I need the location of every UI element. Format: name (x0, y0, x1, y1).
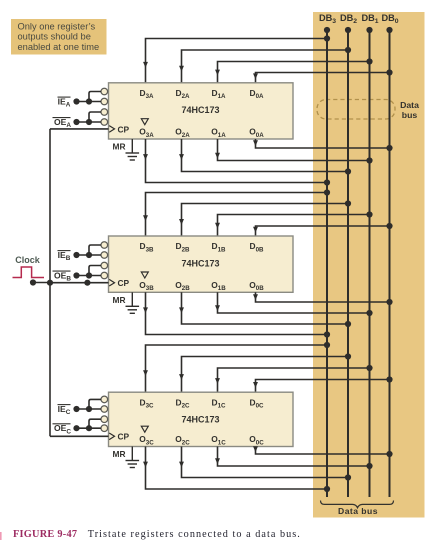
junction IEB (73, 252, 92, 258)
UC pin D3C (140, 397, 155, 409)
junction OEC (73, 425, 92, 431)
net OEA label (53, 117, 72, 129)
wire O1C to bus DB1 (215, 447, 369, 467)
svg-text:MR: MR (113, 142, 126, 152)
UB pin D0B (250, 241, 265, 253)
wire O3A to bus DB3 (143, 139, 327, 183)
wire O3C to bus DB3 (143, 447, 327, 490)
svg-text:OEC: OEC (54, 423, 71, 435)
net IEC label (58, 404, 71, 416)
svg-text:OEA: OEA (54, 117, 71, 129)
wire O3B to bus DB3 (143, 292, 327, 334)
wire bus DB3 to D3B (143, 193, 327, 237)
svg-text:Clock: Clock (15, 255, 41, 265)
UA label 74HC173 (181, 105, 219, 115)
svg-text:IEC: IEC (58, 404, 71, 416)
junction DB2 / O2B (345, 321, 351, 327)
junction OEA (73, 119, 92, 125)
junction DB2 / D2C (345, 353, 351, 359)
dashed data bus outline (317, 100, 395, 120)
wire O0B to bus DB0 (253, 292, 389, 302)
wire O2B to bus DB2 (179, 292, 348, 324)
junction IEC (73, 406, 92, 412)
svg-text:bus: bus (402, 110, 418, 120)
svg-text:CP: CP (118, 278, 130, 288)
junction clock source (30, 279, 36, 285)
wire OEB (77, 266, 102, 276)
wire IEB (77, 245, 102, 255)
UC input-enable bubbles (101, 396, 108, 431)
junction DB0 / D0C (386, 376, 392, 382)
register UC 74HC173 body (109, 392, 294, 446)
UB pin D1B (212, 241, 227, 253)
bus line DB2 (345, 27, 351, 497)
svg-text:IEB: IEB (58, 250, 71, 262)
wire bus DB3 to D3A (143, 39, 327, 83)
UC pin D1C (212, 397, 227, 409)
UA pin O0A (249, 127, 264, 139)
junction DB2 / O2C (345, 474, 351, 480)
wire O2C to bus DB2 (179, 447, 348, 478)
register UA 74HC173 body (109, 83, 294, 139)
junction DB0 / O0C (386, 451, 392, 457)
junction DB1 / D1B (366, 211, 372, 217)
wire bus DB1 to D1A (215, 62, 369, 83)
svg-text:74HC173: 74HC173 (181, 105, 219, 115)
junction DB3 / O3A (324, 179, 330, 185)
wire IEC (77, 399, 102, 409)
junction DB0 / D0B (386, 223, 392, 229)
svg-text:Data bus: Data bus (338, 506, 378, 516)
UB pin O1B (211, 280, 226, 292)
UB pin D3B (140, 241, 155, 253)
junction clock rail / UB (47, 280, 91, 286)
svg-text:OEB: OEB (54, 271, 71, 283)
wire bus DB2 to D2B (179, 204, 348, 237)
wire rail to CP of UA (50, 128, 109, 130)
junction DB1 / O1A (366, 157, 372, 163)
junction DB2 / O2A (345, 168, 351, 174)
svg-text:74HC173: 74HC173 (181, 258, 219, 268)
junction OEB (73, 272, 92, 278)
UB label 74HC173 (181, 258, 219, 268)
junction DB1 / D1A (366, 58, 372, 64)
wire O0C to bus DB0 (253, 446, 389, 454)
UB pin O0B (249, 280, 264, 292)
wire O1B to bus DB1 (215, 292, 369, 313)
UA pin MR (113, 142, 126, 152)
figure caption (13, 529, 301, 540)
UC pin O1C (211, 434, 226, 446)
UA pin CP with clock chevron (109, 124, 129, 134)
UB pin D2B (176, 241, 191, 253)
junction DB3 / O3B (324, 331, 330, 337)
wire rail to CP of UC (50, 435, 109, 437)
net label DB2 (340, 13, 357, 25)
UC pin D2C (176, 397, 191, 409)
junction DB2 / D2B (345, 200, 351, 206)
svg-text:Data: Data (400, 100, 419, 110)
wire bus DB0 to D0A (253, 73, 389, 83)
UA pin O2A (175, 127, 190, 139)
bus line DB1 (366, 27, 372, 497)
wire clock rail (49, 129, 51, 436)
UA tristate symbol (141, 119, 148, 125)
net IEB label (58, 250, 71, 262)
UB pin MR (113, 295, 126, 305)
label Data bus (bottom) (338, 506, 378, 516)
junction DB3 / O3C (324, 486, 330, 492)
wire bus DB1 to D1C (215, 368, 369, 392)
wire bus DB2 to D2C (179, 357, 348, 393)
UA pin O1A (211, 127, 226, 139)
UC pin MR (113, 449, 126, 459)
UC pin CP with clock chevron (109, 432, 129, 442)
red margin mark (0, 532, 2, 540)
wire O1A to bus DB1 (215, 139, 369, 161)
UA pin O3A (139, 127, 154, 139)
UA input-enable bubbles (101, 88, 108, 125)
svg-text:Only one register’s: Only one register’s (18, 22, 96, 32)
wire bus DB1 to D1B (215, 215, 369, 237)
UB pin O3B (139, 280, 154, 292)
UC pin D0C (250, 397, 265, 409)
net OEB label (53, 271, 72, 283)
UC tristate symbol (141, 426, 148, 432)
junction DB0 / O0B (386, 299, 392, 305)
bus line DB0 (386, 27, 392, 497)
wire bus DB0 to D0B (253, 226, 389, 236)
svg-text:MR: MR (113, 295, 126, 305)
UC label 74HC173 (181, 415, 219, 425)
svg-text:74HC173: 74HC173 (181, 415, 219, 425)
wire rail to CP of UB (50, 282, 109, 284)
junction IEA (73, 98, 92, 104)
junction DB3 / D3C (324, 342, 330, 348)
UC pin O0C (249, 434, 264, 446)
UA pin D2A (176, 88, 191, 100)
junction DB1 / O1B (366, 310, 372, 316)
ground at UC MR (126, 447, 140, 468)
wire bus DB3 to D3C (143, 345, 327, 392)
svg-text:MR: MR (113, 449, 126, 459)
junction DB2 / D2A (345, 47, 351, 53)
wire IEA (77, 92, 102, 102)
junction DB3 / D3B (324, 189, 330, 195)
bus line DB3 (324, 27, 330, 497)
note box: only one register enabled (11, 19, 107, 55)
wire bus DB2 to D2A (179, 50, 348, 83)
UC pin O3C (139, 434, 154, 446)
UB pin O2B (175, 280, 190, 292)
net label DB0 (381, 13, 398, 25)
UB pin CP with clock chevron (109, 278, 129, 288)
wire OEA (77, 112, 102, 122)
UC pin O2C (175, 434, 190, 446)
junction DB1 / D1C (366, 365, 372, 371)
svg-text:CP: CP (118, 432, 130, 442)
UA pin D3A (140, 88, 155, 100)
UA pin D0A (250, 88, 265, 100)
data bus shaded region (313, 12, 425, 518)
net label DB1 (361, 13, 378, 25)
UA pin D1A (212, 88, 227, 100)
net label DB3 (319, 13, 336, 25)
ground at UA MR (126, 139, 140, 160)
svg-text:outputs should be: outputs should be (18, 32, 91, 42)
svg-text:IEA: IEA (58, 97, 71, 109)
svg-text:Tristate registers connected t: Tristate registers connected to a data b… (88, 529, 301, 540)
net OEC label (53, 423, 72, 435)
UB input-enable bubbles (101, 242, 108, 279)
junction DB0 / D0A (386, 69, 392, 75)
ground at UB MR (126, 292, 140, 313)
wire O2A to bus DB2 (179, 139, 348, 172)
junction DB1 / O1C (366, 463, 372, 469)
data bus brace (321, 501, 394, 508)
net IEA label (58, 97, 71, 109)
junction DB0 / O0A (386, 145, 392, 151)
svg-text:CP: CP (118, 124, 130, 134)
wire O0A to bus DB0 (253, 139, 389, 148)
UB tristate symbol (141, 272, 148, 278)
wire bus DB0 to D0C (253, 380, 389, 393)
label Data bus (right) (400, 100, 419, 120)
svg-text:FIGURE 9-47: FIGURE 9-47 (13, 529, 77, 540)
node Clock label (15, 255, 41, 265)
junction DB3 / D3A (324, 35, 330, 41)
wire clock to CP rail (33, 282, 50, 284)
register UB 74HC173 body (109, 236, 294, 292)
wire OEC (77, 419, 102, 428)
svg-text:enabled at one time: enabled at one time (18, 42, 100, 52)
clock pulse waveform (13, 267, 45, 278)
